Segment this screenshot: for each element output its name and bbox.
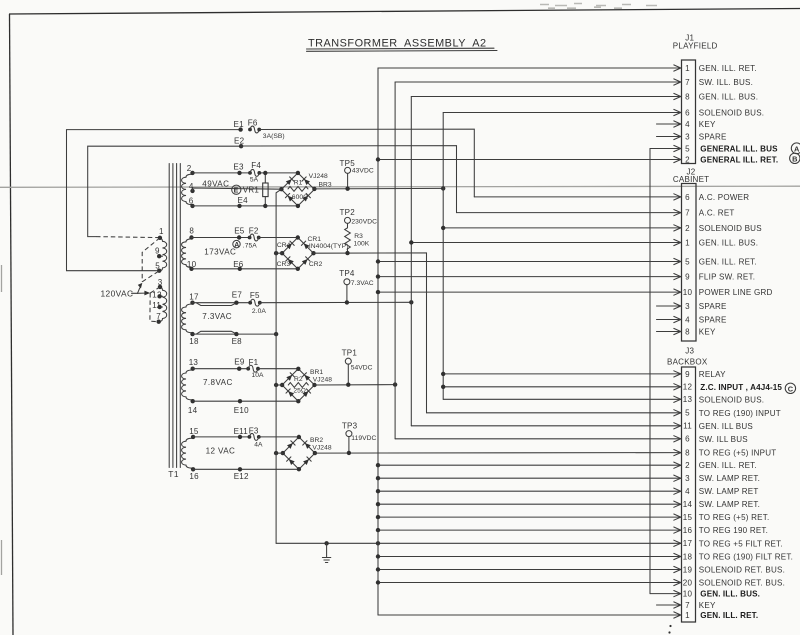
- J3 pin 11 label: [699, 422, 753, 431]
- wire CR right vertex 230VDC to reg190 vertical: [314, 253, 427, 413]
- J1 pin 1 label: [699, 64, 757, 73]
- J2 pin 10 label: [699, 288, 773, 297]
- node BR1 bottom vertex: [296, 399, 300, 403]
- designator CR2: [309, 261, 323, 268]
- svg-text:.75A: .75A: [243, 242, 257, 249]
- svg-text:600Ω: 600Ω: [292, 194, 308, 201]
- value label 12VAC: [206, 447, 236, 456]
- svg-text:11: 11: [683, 422, 692, 431]
- J3 pin number 6: [685, 435, 690, 444]
- wire fuse F6 to A.C. POWER corner: [259, 129, 474, 197]
- svg-text:7: 7: [156, 312, 161, 321]
- svg-text:12: 12: [152, 291, 162, 300]
- wire dashed tap select pin5 branch: [142, 271, 159, 282]
- svg-text:11: 11: [152, 301, 161, 310]
- primary winding upper coil: [159, 238, 166, 271]
- svg-text:GENERAL ILL. BUS: GENERAL ILL. BUS: [700, 145, 778, 154]
- J3 pin 14 label: [699, 500, 760, 509]
- wire J3 pin 1 GEN. ILL. RET.: [378, 612, 681, 618]
- svg-text:18: 18: [683, 552, 693, 561]
- svg-text:E4: E4: [238, 196, 249, 205]
- svg-text:230VDC: 230VDC: [351, 219, 377, 226]
- svg-text:5: 5: [685, 409, 690, 418]
- wire J1 pin 4 KEY: [657, 121, 681, 127]
- J3 pin number 4: [685, 487, 690, 496]
- svg-text:10: 10: [683, 590, 693, 599]
- J3 pin 15 label: [699, 513, 770, 522]
- winding pin 14: [188, 399, 198, 415]
- J2 pin number 5: [685, 257, 690, 266]
- terminal E12: [234, 467, 249, 481]
- svg-text:E: E: [234, 188, 239, 195]
- svg-text:PLAYFIELD: PLAYFIELD: [673, 42, 718, 51]
- svg-text:E2: E2: [234, 136, 245, 145]
- winding pin 2: [187, 164, 195, 175]
- winding pin 10: [187, 260, 197, 271]
- value label 49VAC: [202, 179, 229, 188]
- J3 pin number 5: [685, 409, 690, 418]
- svg-text:GEN. ILL. BUS.: GEN. ILL. BUS.: [700, 590, 760, 599]
- node BR3 top vertex: [296, 171, 300, 175]
- wire ground run to J3 pin 17 (TO REG +5 FILT RET): [276, 542, 681, 544]
- svg-text:1: 1: [159, 227, 164, 236]
- test point TP5 43VDC: [340, 159, 374, 191]
- primary winding lower coil: [159, 287, 166, 321]
- wire pin 15 to E11: [193, 436, 249, 438]
- wire J1 pin 2 GENERAL ILL. RET.: [376, 156, 681, 162]
- svg-text:CR2: CR2: [309, 261, 323, 268]
- J3 pin number 13: [683, 395, 693, 404]
- test point TP4 7.3VAC: [339, 269, 374, 304]
- svg-text:15: 15: [189, 427, 199, 436]
- svg-text:49VAC: 49VAC: [202, 179, 229, 188]
- winding pin 6: [189, 197, 195, 208]
- node BR3 bottom vertex: [296, 204, 300, 208]
- J3 pin number 20: [683, 578, 693, 587]
- svg-text:IN4004(TYP): IN4004(TYP): [309, 243, 349, 250]
- fuse F3 4A: [248, 427, 263, 449]
- svg-text:CR3: CR3: [277, 261, 291, 268]
- svg-text:VR1: VR1: [243, 186, 260, 195]
- terminal E6: [233, 260, 244, 271]
- wire pin 16 to bridge BR2 bottom: [193, 468, 299, 470]
- J1 pin number 7: [685, 78, 690, 87]
- balloon C on Z.C. INPUT: [785, 383, 795, 393]
- terminal E10: [234, 399, 249, 415]
- J2 pin number 1: [685, 238, 690, 247]
- svg-text:TO REG (190) INPUT: TO REG (190) INPUT: [699, 409, 781, 418]
- svg-text:2: 2: [685, 461, 690, 470]
- wire J3 pin 2 GEN. ILL. RET.: [376, 462, 681, 468]
- wire dashed E2 corner to primary pin 1: [96, 237, 160, 238]
- J3 pin 5 label: [699, 409, 781, 418]
- svg-text:TP2: TP2: [340, 208, 356, 217]
- J3 pin number 19: [683, 565, 693, 574]
- svg-text:E7: E7: [232, 291, 243, 300]
- border frame left edge: [10, 14, 14, 635]
- svg-text:E6: E6: [233, 260, 244, 269]
- wire J3 pin 20 SOLENOID RET. BUS.: [376, 579, 681, 585]
- wire J2 pin 2 SOLENOID BUS: [441, 225, 681, 231]
- svg-text:2: 2: [685, 155, 690, 164]
- svg-text:TO REG (190) FILT RET.: TO REG (190) FILT RET.: [699, 553, 793, 562]
- wire return bus vertical (GEN ILL RET): [377, 68, 379, 615]
- svg-text:SW. LAMP RET.: SW. LAMP RET.: [699, 474, 760, 483]
- junction gen ill bus feed end: [409, 300, 413, 304]
- wire dashed tap select pin1 branch: [142, 238, 160, 282]
- J1 pin number 4: [685, 120, 690, 129]
- svg-text:5: 5: [155, 262, 160, 271]
- J1 pin number 5: [685, 144, 690, 153]
- J3 pin number 18: [683, 552, 693, 561]
- ground symbol: [322, 543, 330, 562]
- terminal E9: [234, 358, 245, 371]
- svg-text:3A(SB): 3A(SB): [263, 133, 285, 140]
- svg-text:3: 3: [685, 132, 690, 141]
- svg-text:43VDC: 43VDC: [352, 168, 374, 175]
- svg-text:3: 3: [158, 278, 163, 287]
- secondary winding 12VAC coil: [182, 438, 193, 468]
- J1 pin 8 label: [699, 93, 758, 102]
- J3 pin 19 label: [699, 566, 785, 575]
- terminal E7: [232, 291, 243, 305]
- svg-text:12: 12: [683, 383, 693, 392]
- svg-text:SOLENOID BUS: SOLENOID BUS: [699, 224, 762, 233]
- svg-text:R1: R1: [294, 180, 303, 187]
- balloon B on GENERAL ILL. RET.: [790, 153, 800, 163]
- J2 pin 2 label: [699, 224, 762, 233]
- svg-text:10A: 10A: [252, 372, 265, 379]
- svg-text:SOLENOID RET. BUS.: SOLENOID RET. BUS.: [699, 579, 785, 588]
- J3 pin number 7: [685, 601, 690, 610]
- J1 pin number 3: [685, 132, 690, 141]
- J2 pin 8 label: [699, 328, 716, 337]
- designator BR3: [319, 182, 332, 189]
- svg-text:POWER LINE GRD: POWER LINE GRD: [699, 288, 773, 297]
- J2 pin number 4: [685, 315, 690, 324]
- J3 pin 1 label: [700, 611, 758, 620]
- test point TP2 230VDC: [340, 208, 378, 228]
- svg-text:10: 10: [683, 288, 693, 297]
- J3 pin number 16: [683, 526, 693, 535]
- svg-text:7: 7: [685, 601, 690, 610]
- svg-text:TRANSFORMER ASSEMBLY A2: TRANSFORMER ASSEMBLY A2: [308, 38, 487, 50]
- terminal E5: [234, 227, 245, 240]
- wire pin 2 to E3: [193, 172, 251, 174]
- wire pin 14 to bridge BR1 bottom: [193, 400, 299, 402]
- wire J2 pin 1 GEN. ILL. BUS.: [409, 239, 681, 245]
- secondary winding 7.3VAC coil: [182, 304, 193, 333]
- svg-text:CABINET: CABINET: [673, 175, 709, 184]
- svg-text:5A: 5A: [250, 177, 259, 184]
- svg-text:8: 8: [685, 327, 690, 336]
- junction ground at return bus: [376, 541, 380, 545]
- svg-text:GENERAL ILL. RET.: GENERAL ILL. RET.: [700, 156, 778, 165]
- J3 pin 4 label: [699, 487, 759, 496]
- wire E1 feed (from left edge down to primary pin 5): [67, 130, 241, 271]
- svg-text:E11: E11: [234, 427, 249, 436]
- J2 pin 4 label: [699, 316, 727, 325]
- wire J3 pin 8 TO REG (+5) INPUT: [674, 450, 681, 456]
- balloon E for VR1: [232, 185, 260, 195]
- J1 pin number 8: [685, 92, 690, 101]
- svg-text:4: 4: [685, 315, 690, 324]
- J3 pin 10 label: [700, 590, 760, 599]
- J2 pin number 6: [685, 193, 690, 202]
- stub CR left vertex to common vertical: [274, 251, 282, 255]
- J3 pin 2 label: [699, 461, 757, 470]
- secondary winding 49VAC coil: [182, 174, 193, 204]
- node 120VAC label and feed arrows: [101, 283, 151, 299]
- wire J3 pin 13 SOLENOID BUS.: [443, 396, 681, 402]
- primary pin 11 tap: [152, 301, 162, 310]
- test point TP1 54VDC: [342, 349, 373, 387]
- wire pin 4 centre tap to BR3 left vertex: [193, 188, 282, 191]
- svg-text:7.8VAC: 7.8VAC: [203, 378, 233, 387]
- node CR left vertex: [280, 251, 284, 255]
- svg-text:J3: J3: [685, 347, 694, 356]
- wire common return vertical (bridge negatives): [276, 189, 281, 543]
- J3 pin 9 label: [699, 370, 726, 379]
- J2 pin number 3: [685, 302, 690, 311]
- svg-text:17: 17: [189, 293, 199, 302]
- wire J3 pin 19 SOLENOID RET. BUS.: [376, 566, 681, 572]
- J1 pin 6 label: [699, 109, 764, 118]
- node BR1 top vertex: [296, 367, 300, 371]
- scan artifact left edge: [1, 265, 3, 575]
- svg-text:SPARE: SPARE: [699, 316, 727, 325]
- svg-text:SPARE: SPARE: [699, 302, 727, 311]
- svg-text:13: 13: [189, 358, 199, 367]
- wire pin 6 to bridge BR3 bottom: [193, 205, 298, 207]
- fuse F2 .75A: [233, 227, 261, 250]
- svg-text:E1: E1: [234, 120, 245, 129]
- wire J1 pin 3 SPARE: [657, 133, 681, 139]
- wire BR2 right vertex +11.9V feed to J3-8: [315, 452, 681, 455]
- svg-text:SOLENOID BUS.: SOLENOID BUS.: [699, 395, 764, 404]
- connector J2 CABINET body: [673, 168, 709, 341]
- J1 pin 3 label: [699, 133, 727, 142]
- resistor R3 100K: [345, 228, 370, 256]
- wire fuse F4 to bridge BR3 top: [259, 172, 298, 174]
- svg-text:BR1: BR1: [310, 369, 323, 376]
- svg-text:20: 20: [683, 578, 693, 587]
- J2 pin 3 label: [699, 302, 727, 311]
- winding pin 15: [189, 427, 199, 439]
- balloon A on GENERAL ILL. BUS: [791, 143, 800, 154]
- wire J3 pin 12 Z.C. INPUT , A4J4-15: [441, 384, 681, 390]
- svg-text:VJ248: VJ248: [312, 445, 331, 452]
- node BR3 right vertex: [312, 187, 316, 191]
- wire pin 10 to bridge CR bottom: [192, 268, 298, 270]
- wire J3 pin 4 SW. LAMP RET: [376, 488, 681, 494]
- J3 pin number 15: [683, 513, 693, 522]
- primary pin 1: [158, 227, 164, 240]
- J3 pin number 2: [685, 461, 690, 470]
- svg-text:R3: R3: [354, 233, 363, 240]
- svg-text:13: 13: [683, 395, 693, 404]
- svg-text:100K: 100K: [354, 241, 370, 248]
- wire fuse F2 to bridge CR top: [259, 237, 298, 239]
- J3 pin number 11: [683, 422, 692, 431]
- svg-text:4: 4: [685, 120, 690, 129]
- J3 pin 6 label: [699, 435, 748, 444]
- J2 pin number 2: [685, 224, 690, 233]
- J2 pin 9 label: [699, 273, 755, 282]
- terminal E8: [232, 332, 243, 346]
- transformer designator T1: [168, 469, 179, 479]
- svg-text:7.3VAC: 7.3VAC: [202, 312, 232, 321]
- svg-text:120VAC: 120VAC: [101, 289, 134, 299]
- wire J2 pin 7 A.C. RET: [457, 210, 681, 216]
- bridge rectifier BR2: [283, 437, 315, 469]
- designator BR1: [310, 369, 323, 376]
- svg-text:1: 1: [685, 64, 690, 73]
- junction E8 wire to common vertical: [274, 332, 278, 336]
- svg-text:E3: E3: [233, 162, 244, 171]
- J2 pin number 9: [685, 273, 690, 282]
- junction BR1 output at sw-ill vertical: [393, 382, 397, 386]
- scan ghost marks above border: [540, 4, 657, 9]
- svg-text:GEN. ILL. BUS.: GEN. ILL. BUS.: [699, 239, 758, 248]
- winding pin 4 centre tap: [189, 182, 195, 193]
- svg-text:TP1: TP1: [342, 349, 358, 358]
- wire J3 pin 7 KEY: [657, 602, 681, 608]
- terminal E11: [234, 427, 249, 439]
- svg-text:BR3: BR3: [319, 182, 332, 189]
- J3 pin 12 label: [700, 383, 782, 392]
- svg-text:SW. LAMP RET.: SW. LAMP RET.: [699, 500, 760, 509]
- terminal E1: [234, 120, 245, 132]
- svg-text:E9: E9: [234, 358, 245, 367]
- J2 pin number 8: [685, 327, 690, 336]
- node BR2 bottom vertex: [297, 467, 301, 471]
- svg-text:7: 7: [685, 209, 690, 218]
- J1 pin number 2: [685, 155, 690, 164]
- designator CR4: [277, 242, 291, 249]
- part number VJ248 for BR1: [313, 377, 332, 384]
- svg-text:BR2: BR2: [310, 437, 323, 444]
- svg-text:A: A: [234, 242, 239, 249]
- svg-text:A.C. POWER: A.C. POWER: [699, 193, 750, 202]
- wire J3 pin 9 RELAY: [441, 371, 681, 377]
- wire J3 pin 5 TO REG (190) INPUT: [427, 410, 681, 416]
- wire J3 pin 16 TO REG 190 RET.: [376, 527, 681, 533]
- svg-text:3: 3: [685, 474, 690, 483]
- J2 pin 1 label: [699, 239, 758, 248]
- svg-text:173VAC: 173VAC: [204, 247, 236, 256]
- value label 7.8VAC: [203, 378, 233, 387]
- svg-text:16: 16: [189, 472, 199, 481]
- wire BR3 right vertex 43VDC bus to solenoid-bus vertical: [314, 187, 443, 190]
- node CR right vertex: [311, 251, 315, 255]
- svg-text:4A: 4A: [254, 442, 263, 449]
- wire J1 pin 5 GENERAL ILL. BUS: [650, 145, 681, 151]
- part number IN4004(TYP): [309, 243, 349, 250]
- winding pin 8: [189, 227, 194, 240]
- svg-text:KEY: KEY: [699, 601, 716, 610]
- svg-text:SW. LAMP RET: SW. LAMP RET: [699, 487, 759, 496]
- J2 pin number 7: [685, 209, 690, 218]
- J3 pin 16 label: [699, 526, 768, 535]
- svg-text:25Ω: 25Ω: [293, 387, 306, 394]
- wire J1 pin 1 GEN. ILL. RET.: [378, 65, 681, 71]
- svg-text:TP3: TP3: [342, 421, 358, 430]
- svg-text:9: 9: [155, 247, 160, 256]
- wire J3 pin 18 TO REG (190) FILT RET.: [376, 553, 681, 559]
- svg-text:5: 5: [685, 144, 690, 153]
- svg-text:SOLENOID BUS.: SOLENOID BUS.: [699, 109, 764, 118]
- wire J1 pin 7 SW. ILL. BUS.: [395, 79, 681, 85]
- J1 pin 5 label: [700, 145, 778, 154]
- svg-text:8: 8: [685, 449, 690, 458]
- svg-text:6: 6: [685, 435, 690, 444]
- wire J2 pin 9 FLIP SW. RET.: [376, 274, 681, 280]
- svg-text:E5: E5: [234, 227, 245, 236]
- wire pin 8 to E5: [192, 237, 250, 239]
- svg-text:10: 10: [187, 260, 197, 269]
- wire J3 pin 15 TO REG (+5) RET.: [376, 514, 681, 520]
- svg-text:VJ248: VJ248: [309, 173, 328, 180]
- svg-text:4: 4: [685, 487, 690, 496]
- transformer T1 core laminations: [169, 164, 180, 468]
- terminal E4: [237, 196, 248, 208]
- svg-text:GEN. ILL. RET.: GEN. ILL. RET.: [699, 258, 757, 267]
- secondary winding 7.8VAC coil: [182, 370, 193, 400]
- svg-text:9: 9: [685, 370, 690, 379]
- bridge rectifier BR1: [282, 369, 314, 401]
- terminal E2: [234, 136, 245, 148]
- winding pin 13: [189, 358, 199, 371]
- node BR1 right vertex: [312, 383, 316, 387]
- wire pin 13 to E9: [193, 368, 249, 370]
- svg-text:18: 18: [189, 337, 199, 346]
- node BR2 top vertex: [297, 435, 301, 439]
- svg-text:SW. ILL. BUS.: SW. ILL. BUS.: [699, 78, 753, 87]
- junction 43VDC at solenoid bus vertical: [441, 186, 445, 190]
- svg-text:BACKBOX: BACKBOX: [667, 357, 708, 366]
- J3 pin number 14: [683, 500, 693, 509]
- fuse F5 2.0A: [248, 291, 266, 315]
- J3 pin number 10: [683, 590, 693, 599]
- J3 pin 8 label: [699, 449, 777, 458]
- svg-text:GEN. ILL. RET.: GEN. ILL. RET.: [700, 611, 758, 620]
- svg-text:RELAY: RELAY: [699, 370, 726, 379]
- paper fold line (horizontal crease): [0, 186, 800, 187]
- svg-text:119VDC: 119VDC: [351, 435, 376, 442]
- primary pin 5: [155, 262, 161, 273]
- svg-text:GEN. ILL. RET.: GEN. ILL. RET.: [699, 64, 757, 73]
- value label 7.3VAC: [202, 312, 232, 321]
- svg-text:A.C. RET: A.C. RET: [699, 209, 735, 218]
- wire J3 pin 14 SW. LAMP RET.: [376, 501, 681, 507]
- terminal E3: [233, 162, 244, 175]
- node CR bottom vertex: [296, 267, 300, 271]
- wire dashed tap select pin7 branch: [150, 293, 159, 322]
- wire SOLENOID BUS vertical: [442, 113, 444, 400]
- svg-text:TO REG (+5) RET.: TO REG (+5) RET.: [699, 513, 770, 522]
- primary pin 12 tap: [152, 291, 162, 300]
- svg-text:E8: E8: [232, 337, 243, 346]
- J3 pin 17 label: [699, 539, 783, 548]
- wire J1 pin 6 SOLENOID BUS.: [443, 109, 681, 115]
- J3 pin number 8: [685, 449, 690, 458]
- wire GENERAL ILL BUS vertical: [649, 149, 651, 594]
- wire J3 pin 6 SW. ILL BUS: [395, 436, 681, 442]
- designator CR1: [308, 236, 322, 243]
- J3 pin 13 label: [699, 395, 764, 404]
- stub BR1 left vertex to common vertical: [274, 383, 282, 387]
